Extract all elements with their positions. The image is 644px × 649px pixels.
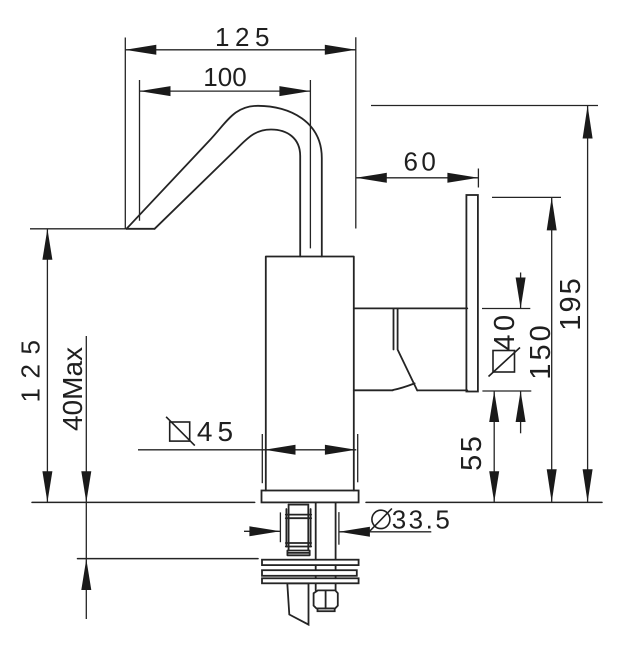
dim line 195 — [587, 106, 589, 503]
svg-text:40: 40 — [489, 311, 521, 350]
shank top tick — [289, 504, 309, 506]
ext line 45 right — [357, 434, 359, 482]
valve skirt arc — [393, 383, 415, 390]
valve joint line 1 — [393, 308, 395, 349]
arrowhead 195 bottom — [583, 469, 593, 502]
valve cylinder top edge — [354, 307, 468, 309]
supply pipe segments in washer gaps — [316, 565, 336, 590]
valve joint line 2 — [397, 308, 399, 349]
svg-text:150: 150 — [525, 322, 557, 379]
leader line 33.5 — [339, 531, 431, 533]
tick for 40 square top — [482, 308, 530, 310]
svg-text:45: 45 — [197, 416, 238, 447]
mounting surface line left — [32, 501, 255, 503]
square symbol slash for 40 — [489, 348, 521, 377]
dim 40 square top arrow tail — [520, 273, 522, 309]
svg-text:100: 100 — [203, 62, 246, 92]
dim line 55 — [493, 391, 495, 502]
arrowhead 125 top right — [325, 45, 356, 55]
spout outer edge — [127, 106, 322, 257]
arrowhead 40Max down — [81, 471, 91, 502]
svg-text:125: 125 — [215, 22, 275, 52]
ext line 33.5 right — [338, 512, 340, 545]
arrowhead 55 top — [489, 391, 499, 422]
washer bar 2 — [262, 570, 357, 576]
ext line: dim 100 left — [139, 80, 141, 221]
dim line 150 — [551, 197, 553, 502]
ext line: dim 60 right — [477, 169, 479, 188]
dim line 40Max — [85, 336, 87, 619]
svg-text:60: 60 — [403, 147, 439, 177]
shank nut outer verticals — [286, 509, 310, 547]
leader line 45 — [138, 449, 356, 451]
ext line: spout outlet left / dim 125 top left — [124, 38, 126, 229]
horseshoe washer flap — [287, 583, 308, 624]
body base flange — [262, 491, 359, 503]
svg-text:55: 55 — [456, 434, 488, 471]
arrowhead 40sq top (points down) — [516, 278, 526, 309]
shank bottom flare — [287, 551, 309, 556]
shank horizontal bands — [286, 515, 311, 547]
fixing nut center line — [325, 590, 327, 608]
svg-text:195: 195 — [555, 276, 587, 330]
arrowhead 33.5 left (points right) — [249, 526, 280, 536]
ext line 33.5 left — [279, 512, 281, 542]
dim line 125 left vertical — [46, 229, 48, 503]
tick for 40 square bottom / 55 top — [482, 390, 531, 392]
arrowhead 150 bottom — [547, 469, 557, 502]
arrowhead 125 top left — [125, 45, 156, 55]
fixing nut — [314, 590, 338, 608]
arrowhead 45 right — [325, 445, 356, 455]
square symbol for 40 (rotated) — [493, 351, 515, 373]
arrowhead 125 left bottom — [42, 471, 52, 502]
dim line 125 top — [125, 49, 355, 51]
counter underside line — [78, 558, 259, 560]
arrowhead 195 top — [583, 106, 593, 139]
arrowhead 150 top — [547, 197, 557, 230]
svg-text:33.5: 33.5 — [392, 505, 453, 535]
top reference line for 195 — [371, 105, 598, 107]
ext line: outlet bottom extended left — [30, 228, 127, 230]
ext line: dim 100 right (through pipe) — [309, 80, 311, 248]
shank inner verticals — [289, 505, 309, 551]
diameter symbol for 33.5 — [372, 510, 390, 528]
fixing nut collar — [318, 608, 335, 611]
body rectangle — [266, 257, 354, 491]
arrowhead 45 left — [265, 445, 296, 455]
ext line: dim 125 top right / 60 left — [355, 37, 357, 228]
handle plate — [466, 195, 478, 392]
mounting surface line right — [366, 501, 602, 503]
arrowhead 33.5 right (points left) — [339, 527, 370, 537]
ext line 45 left — [261, 434, 263, 483]
valve cylinder bottom right — [417, 389, 467, 391]
supply pipe verticals — [316, 502, 336, 559]
arrowhead 55 bottom — [489, 471, 499, 502]
square symbol slash for 45 — [166, 417, 195, 446]
arrowhead 40Max up — [81, 559, 91, 590]
svg-text:40Max: 40Max — [57, 347, 88, 431]
spout outlet bottom edge — [127, 228, 155, 230]
arrowhead 40sq bottom (points up) — [516, 391, 526, 422]
arrowhead 100 left — [140, 86, 171, 96]
tick for 150 top — [492, 196, 561, 198]
washer bar 1 — [262, 560, 359, 565]
valve cylinder bottom left — [354, 389, 393, 391]
dim 40 square bottom arrow tail — [520, 391, 522, 433]
dim line 60 — [356, 177, 479, 179]
square symbol for 45 — [170, 422, 190, 441]
arrowhead 100 right — [279, 86, 310, 96]
diameter symbol slash — [370, 509, 392, 532]
valve lever diagonal — [398, 350, 417, 390]
washer bar 3 — [262, 578, 359, 583]
arrowhead 60 left — [356, 173, 387, 183]
spout inner edge — [155, 130, 301, 257]
arrow tail 33.5 left — [244, 530, 280, 532]
arrowhead 125 left top — [42, 229, 52, 260]
dim line 100 — [140, 90, 311, 92]
svg-text:125: 125 — [16, 331, 46, 403]
arrowhead 60 right — [447, 173, 478, 183]
